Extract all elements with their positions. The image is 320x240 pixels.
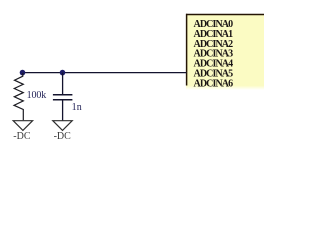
pin label ADCINA6 (194, 78, 234, 89)
svg-text:-DC: -DC (13, 131, 31, 142)
op-amp U1 body (ADC chip, clipped at right edge) (186, 14, 265, 90)
pin label ADCINA4 (194, 59, 234, 70)
wire capacitor top lead (62, 73, 64, 95)
svg-text:100k: 100k (27, 90, 47, 101)
wire capacitor bottom lead (62, 100, 64, 121)
resistor R1 zigzag (14, 73, 23, 120)
pin label ADCINA3 (194, 49, 234, 60)
svg-text:-DC: -DC (54, 131, 72, 142)
capacitor C1 plates (53, 95, 73, 100)
pin label ADCINA5 (194, 69, 234, 80)
node A junction dot (20, 70, 26, 76)
wire from node A to pin ADCINA5 (23, 72, 187, 74)
pin label ADCINA2 (194, 39, 234, 50)
ground symbol -DC under capacitor C1 (53, 121, 72, 142)
capacitor value label 1n (72, 102, 82, 113)
svg-text:ADCINA6: ADCINA6 (194, 78, 234, 89)
node B junction dot (60, 70, 66, 76)
ground symbol -DC under resistor R1 (13, 121, 32, 142)
resistor value label 100k (27, 90, 47, 101)
pin label ADCINA0 (194, 19, 234, 30)
pin label ADCINA1 (194, 29, 234, 40)
svg-text:1n: 1n (72, 102, 82, 113)
